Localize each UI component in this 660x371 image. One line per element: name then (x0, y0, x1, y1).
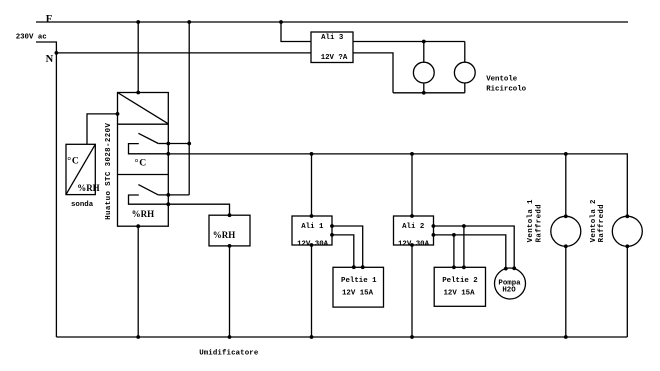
svg-text:Ventole: Ventole (486, 75, 518, 83)
wire F rail (36, 21, 628, 23)
svg-text:Umidificatore: Umidificatore (199, 350, 259, 358)
wire Ali3 12V out (353, 41, 465, 43)
svg-text:%RH: %RH (77, 183, 100, 193)
svg-text:12V 30A: 12V 30A (297, 241, 329, 249)
svg-text:12V 15A: 12V 15A (342, 290, 374, 298)
junction humidifier bottom (228, 244, 232, 248)
peltier module Peltie 2 (434, 267, 485, 306)
junction humidifier rail (228, 335, 232, 339)
svg-text:Ali 3: Ali 3 (321, 34, 344, 42)
svg-text:H2O: H2O (502, 287, 516, 295)
sensor probe box sonda (66, 144, 95, 194)
junction Peltie2 branch minus (452, 233, 456, 237)
junction N corner (55, 51, 59, 55)
svg-text:Ali 2: Ali 2 (402, 223, 424, 231)
wire fan M2 bottom lead (464, 83, 466, 93)
junction fans minus (422, 91, 426, 95)
svg-text:Ali 1: Ali 1 (301, 223, 324, 231)
controller U1 Huatuo STC box (118, 93, 169, 227)
junction Peltie2 minus (452, 265, 456, 269)
svg-text:Ventola 2: Ventola 2 (590, 199, 598, 242)
junction Peltie2 branch plus (462, 224, 466, 228)
power supply U3 Ali 3 (311, 32, 353, 63)
junction Ali2 top (410, 214, 414, 218)
wire branch to Peltie2 plus (463, 226, 465, 267)
svg-text:230V ac: 230V ac (16, 34, 47, 42)
peltier module Peltie 1 (333, 267, 384, 307)
junction Ali2 bottom rail (410, 335, 414, 339)
junction F drop3 (279, 20, 283, 24)
junction controller bottom (136, 224, 140, 228)
svg-text:%RH: %RH (132, 209, 155, 219)
wire F drop to controller (137, 22, 139, 93)
relay contact C blade (138, 133, 158, 143)
svg-text:%RH: %RH (213, 230, 236, 240)
wire Ventola2 return (626, 246, 628, 337)
fan Ventola 1 (551, 216, 581, 246)
wire 230V step (36, 42, 56, 53)
junction Ali2 out minus (432, 233, 436, 237)
wire Ali1 out minus (332, 235, 354, 267)
junction Peltie2 plus (462, 265, 466, 269)
wire RH relay blade out (168, 194, 189, 196)
svg-text:N: N (46, 54, 54, 65)
junction Peltie1 minus (352, 265, 356, 269)
junction controller bottom rail (136, 335, 140, 339)
junction pump plus (512, 266, 516, 270)
wire F feed Ali3 (281, 22, 311, 42)
svg-text:Peltie 2: Peltie 2 (442, 277, 477, 285)
junction Ventola2 top (625, 214, 629, 218)
wire bottom rail (56, 336, 627, 338)
junction C blade box edge (166, 142, 170, 146)
junction humidifier top (228, 213, 232, 217)
svg-text:°C: °C (67, 156, 79, 167)
fan Ventola 2 (612, 216, 642, 246)
junction Ventola1 rail (564, 335, 568, 339)
junction pump minus (504, 267, 508, 271)
svg-text:Peltie 1: Peltie 1 (341, 277, 377, 285)
wire fan M1 top lead (423, 42, 425, 63)
sensor probe diagonal (66, 144, 95, 194)
controller power diagonal (118, 93, 169, 124)
junction RH blade box edge (166, 193, 170, 197)
wire fans return rail (393, 92, 465, 94)
svg-text:12V ?A: 12V ?A (321, 54, 348, 62)
svg-text:12V 15A: 12V 15A (443, 290, 475, 298)
wire humidifier return (229, 246, 231, 337)
humidifier box RH (209, 215, 250, 246)
junction RH common box edge (166, 202, 170, 206)
wire branch to Peltie2 minus (453, 235, 455, 267)
junction Ali1 out minus (330, 233, 334, 237)
junction Ventola1 rail tap (564, 152, 568, 156)
junction C blade F drop (187, 142, 191, 146)
junction probe input (116, 112, 120, 116)
junction C common box edge (166, 152, 170, 156)
wire Ali2 out minus to pump (433, 235, 505, 269)
svg-text:Raffredd: Raffredd (598, 204, 606, 242)
wire C relay common rail (168, 154, 627, 216)
junction Ali1 bottom rail (310, 335, 314, 339)
junction Ali2 bottom (410, 243, 414, 247)
fan M2 Ventole Ricircolo (454, 62, 475, 83)
svg-text:Ricircolo: Ricircolo (486, 86, 526, 94)
svg-text:Ventola 1: Ventola 1 (527, 199, 535, 242)
wire fan M2 top lead (464, 42, 466, 63)
wire Ventola1 feed (565, 154, 567, 216)
junction F drop2 (187, 20, 191, 24)
relay contact RH stub and common (129, 195, 169, 204)
junction Ali2 out plus (432, 224, 436, 228)
junction Ali1 bottom (310, 243, 314, 247)
svg-text:Huatuo STC 3028-220V: Huatuo STC 3028-220V (105, 123, 113, 220)
svg-text:F: F (46, 14, 52, 25)
wire N left drop (55, 53, 57, 337)
wire Ali1 out plus (332, 226, 363, 267)
power supply U2 Ali 2 (394, 216, 434, 245)
wire N rail (56, 52, 311, 54)
junction fans plus (422, 40, 426, 44)
junction controller top (136, 91, 140, 95)
svg-text:°C: °C (135, 157, 147, 168)
junction Ali1 top (310, 214, 314, 218)
pump motor Pompa H2O (495, 268, 526, 299)
junction Ventola2 bottom (625, 244, 629, 248)
relay contact RH blade (138, 185, 158, 195)
wire probe to controller (87, 114, 118, 144)
controller section divider 1 (118, 123, 169, 125)
wire Ali2 return (411, 245, 413, 337)
wire Ali1 input (311, 154, 313, 216)
wire F drop to relay blades (188, 22, 190, 195)
wire Ali1 return (311, 245, 313, 337)
wire fan M1 bottom lead (423, 83, 425, 93)
fan M1 Ventole Ricircolo (413, 62, 434, 83)
svg-text:Raffredd: Raffredd (535, 204, 543, 242)
junction F drop1 (136, 20, 140, 24)
junction Ali1 rail tap (310, 152, 314, 156)
junction Ventola1 bottom (564, 244, 568, 248)
wire Ventola1 return (565, 246, 567, 337)
wire C relay blade out (168, 143, 189, 145)
relay contact C blade segment (158, 143, 168, 145)
junction Ali2 rail tap (410, 152, 414, 156)
junction Ventola1 top (564, 214, 568, 218)
relay contact RH blade segment (158, 194, 168, 196)
wire controller bottom return (137, 226, 139, 337)
wire Ali3 return (353, 53, 393, 93)
wire RH relay to humidifier (168, 204, 229, 215)
power supply U1 Ali 1 (292, 216, 332, 245)
svg-text:12V 30A: 12V 30A (398, 241, 430, 249)
wire Ali2 input (411, 154, 413, 216)
wire Ali2 out plus to pump (433, 226, 514, 268)
controller section divider 2 (118, 174, 169, 176)
junction Peltie1 plus (361, 265, 365, 269)
svg-text:sonda: sonda (71, 201, 94, 209)
relay contact C stub and common (129, 144, 169, 154)
junction Ali1 out plus (330, 224, 334, 228)
